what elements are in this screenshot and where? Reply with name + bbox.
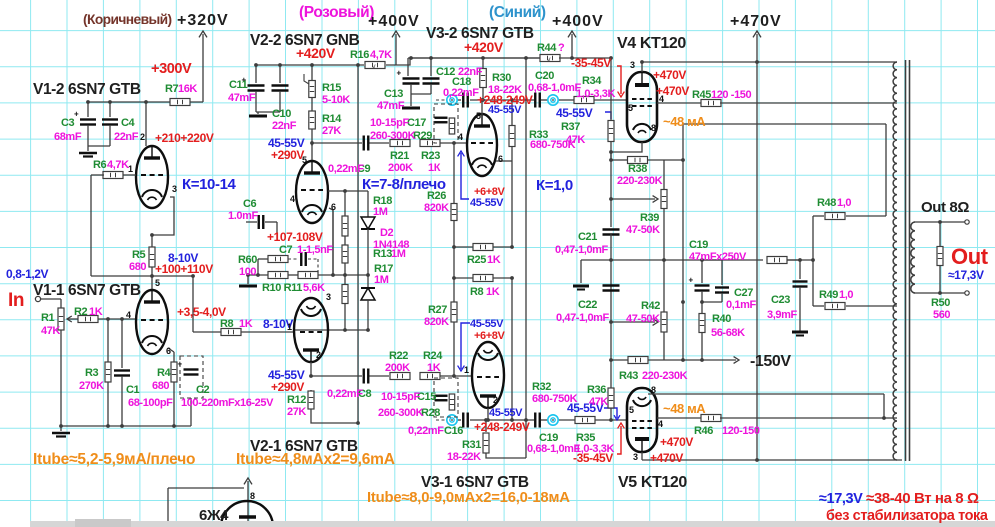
- svg-text:C6: C6: [243, 198, 257, 210]
- ground V1 rail: [52, 433, 70, 437]
- network C15/R28 dashed box: [434, 378, 458, 417]
- svg-text:R21: R21: [390, 150, 409, 162]
- svg-text:+6+8V: +6+8V: [474, 330, 505, 342]
- node +400V arrow (Rozovy): [392, 31, 400, 65]
- svg-text:3: 3: [172, 184, 177, 194]
- svg-text:0,68-1,0mF: 0,68-1,0mF: [527, 443, 581, 455]
- svg-text:2: 2: [140, 132, 145, 142]
- svg-text:R7: R7: [165, 83, 179, 95]
- blue arrow upper 45-55V: [458, 151, 469, 199]
- svg-text:+400V: +400V: [552, 13, 604, 30]
- svg-text:5,6K: 5,6K: [303, 282, 325, 294]
- node -150V arrow: [702, 357, 739, 364]
- svg-text:R29: R29: [413, 130, 432, 142]
- svg-text:4: 4: [290, 194, 295, 204]
- wire V3-2 cathode: [496, 160, 512, 162]
- svg-text:R36: R36: [587, 384, 606, 396]
- blue elbow 45-55V upper: [605, 112, 611, 119]
- svg-text:10-15pF: 10-15pF: [381, 391, 420, 403]
- tube V5 KT120 (inverted): [627, 388, 657, 452]
- tube V2-1 (inverted): [294, 298, 328, 362]
- resistor R10: [268, 272, 288, 279]
- resistor R33: [509, 100, 515, 247]
- svg-text:+470V: +470V: [730, 13, 782, 30]
- capacitor C4: [102, 102, 118, 146]
- svg-text:C22: C22: [578, 299, 597, 311]
- capacitor C22: [603, 286, 620, 291]
- svg-text:10-15pF: 10-15pF: [370, 117, 409, 129]
- svg-text:C15: C15: [417, 391, 436, 403]
- wire y360 row: [611, 302, 702, 360]
- diode D1: [361, 288, 375, 330]
- resistor R46: [701, 415, 721, 422]
- svg-text:R8: R8: [470, 286, 484, 298]
- svg-text:R39: R39: [640, 212, 659, 224]
- wire R6 to grid: [91, 174, 136, 176]
- capacitor C7 dashed: [288, 252, 318, 275]
- capacitor C1: [114, 319, 130, 426]
- svg-text:0,22mF: 0,22mF: [408, 425, 444, 437]
- svg-text:6: 6: [498, 154, 503, 164]
- svg-text:C7: C7: [279, 244, 293, 256]
- svg-text:1M: 1M: [373, 206, 388, 218]
- svg-text:+420V: +420V: [464, 39, 504, 55]
- svg-text:6: 6: [166, 346, 171, 356]
- capacitor C2 (dashed box): [178, 356, 204, 398]
- svg-text:V1-1 6SN7 GTB: V1-1 6SN7 GTB: [33, 282, 141, 299]
- svg-text:8: 8: [250, 491, 255, 501]
- tube 6Zh4 (partial): [221, 501, 273, 527]
- resistor R4: [171, 362, 177, 426]
- ground under C13/C12: [402, 94, 431, 108]
- svg-text:68-100pF: 68-100pF: [128, 397, 173, 409]
- svg-text:45-55V: 45-55V: [470, 318, 504, 330]
- svg-text:47K: 47K: [41, 325, 60, 337]
- svg-text:200K: 200K: [388, 162, 413, 174]
- svg-text:-150V: -150V: [750, 353, 791, 370]
- wire rail x358: [357, 65, 359, 423]
- svg-text:1.0mF: 1.0mF: [228, 210, 258, 222]
- svg-text:R30: R30: [492, 72, 511, 84]
- svg-text:C11: C11: [229, 79, 248, 91]
- svg-text:C20: C20: [535, 70, 554, 82]
- svg-text:5: 5: [155, 278, 160, 288]
- svg-text:200K: 200K: [385, 362, 410, 374]
- wire V2-1 anode bottom: [310, 362, 312, 376]
- svg-text:C16: C16: [444, 425, 463, 437]
- resistor R17 body: [342, 285, 348, 304]
- wire V2-2 grid row: [328, 190, 368, 192]
- resistor R43: [628, 357, 648, 364]
- capacitor C20: [535, 93, 540, 108]
- svg-text:5: 5: [629, 405, 634, 415]
- resistor R3: [105, 319, 111, 426]
- svg-text:V1-2 6SN7 GTB: V1-2 6SN7 GTB: [33, 81, 141, 98]
- svg-text:Itube≈8,0-9,0мАх2=16,0-18мА: Itube≈8,0-9,0мАх2=16,0-18мА: [367, 490, 570, 506]
- capacitor C6: [246, 215, 277, 240]
- wire 45-55V coupling row: [312, 142, 389, 144]
- wire V3-1 bottom: [487, 408, 489, 420]
- resistor R13 body: [342, 245, 348, 263]
- svg-text:0,22mF: 0,22mF: [443, 87, 479, 99]
- svg-text:~48 мА: ~48 мА: [663, 114, 706, 129]
- svg-text:0,22mF: 0,22mF: [328, 163, 364, 175]
- capacitor C8: [364, 369, 369, 384]
- svg-text:47mF: 47mF: [228, 92, 256, 104]
- svg-text:+470V: +470V: [653, 68, 686, 82]
- svg-text:6: 6: [331, 202, 336, 212]
- svg-text:27K: 27K: [322, 125, 341, 137]
- svg-text:+3,5-4,0V: +3,5-4,0V: [177, 305, 226, 319]
- wire secondary bottom lead: [914, 291, 969, 295]
- svg-text:260-300K: 260-300K: [370, 130, 416, 142]
- wire V1-2 anode rail: [88, 101, 203, 103]
- wire +107-108V row: [248, 274, 368, 276]
- resistor R40: [699, 302, 705, 360]
- svg-text:R4: R4: [157, 367, 172, 379]
- tube V3-2: [467, 114, 497, 176]
- wire +248-249V row: [436, 99, 627, 101]
- svg-text:R37: R37: [561, 121, 580, 133]
- svg-text:120 -150: 120 -150: [711, 89, 752, 101]
- svg-text:R44: R44: [537, 42, 557, 54]
- wire R45 to OPT tap: [720, 102, 897, 104]
- svg-text:R42: R42: [641, 300, 660, 312]
- resistor R18 body: [342, 216, 348, 236]
- blue arrow lower 45-55V: [458, 323, 470, 371]
- svg-text:+6+8V: +6+8V: [474, 186, 505, 198]
- wire feedback rail x91: [90, 175, 92, 276]
- resistor R60: [258, 256, 288, 276]
- svg-text:R1: R1: [41, 312, 55, 324]
- svg-text:5-10K: 5-10K: [322, 94, 350, 106]
- wire fb rail x813: [812, 216, 814, 306]
- svg-text:C17: C17: [407, 117, 426, 129]
- svg-text:0,1mF: 0,1mF: [726, 299, 756, 311]
- svg-text:~48 мА: ~48 мА: [663, 401, 706, 416]
- svg-text:47mF: 47mF: [377, 100, 405, 112]
- transformer primary coil: [893, 62, 897, 460]
- ground stub +107 row: [239, 275, 257, 286]
- capacitor C21: [603, 230, 620, 389]
- wire V1-2 cathode: [152, 197, 174, 247]
- svg-text:R15: R15: [322, 82, 341, 94]
- wire V2-1 grid row: [294, 329, 368, 331]
- wire R24 to V3-1 grid: [440, 375, 472, 377]
- wire V5 anode bottom: [642, 452, 902, 460]
- svg-text:120-150: 120-150: [722, 425, 760, 437]
- ground under C3/C4: [79, 153, 97, 157]
- svg-text:100-220mFx16-25V: 100-220mFx16-25V: [181, 397, 274, 409]
- svg-text:+: +: [74, 110, 79, 119]
- svg-text:+: +: [178, 360, 183, 369]
- svg-text:47-50K: 47-50K: [626, 313, 660, 325]
- svg-text:R38: R38: [628, 163, 647, 175]
- wire R8 leads: [193, 331, 294, 333]
- capacitor C9: [364, 136, 369, 151]
- svg-text:8-10V: 8-10V: [168, 251, 198, 265]
- svg-text:R10 R11: R10 R11: [262, 282, 302, 294]
- svg-text:Out 8Ω: Out 8Ω: [921, 199, 969, 216]
- svg-text:≈38-40 Вт на 8 Ω: ≈38-40 Вт на 8 Ω: [866, 490, 979, 507]
- svg-text:+400V: +400V: [368, 13, 420, 30]
- svg-text:47-50K: 47-50K: [626, 224, 660, 236]
- svg-text:R49: R49: [819, 289, 838, 301]
- svg-text:4: 4: [458, 132, 463, 142]
- svg-text:+300V: +300V: [151, 61, 192, 77]
- svg-text:-35-45V: -35-45V: [571, 56, 611, 70]
- svg-text:R26: R26: [427, 190, 446, 202]
- svg-text:≈17,3V: ≈17,3V: [948, 268, 984, 282]
- resistor R6: [103, 172, 123, 179]
- capacitor C10: [272, 65, 289, 112]
- svg-text:4: 4: [126, 310, 131, 320]
- svg-text:(Розовый): (Розовый): [299, 4, 374, 21]
- svg-text:Itube≈5,2-5,9мА/плечо: Itube≈5,2-5,9мА/плечо: [33, 451, 195, 468]
- svg-text:V4 KT120: V4 KT120: [617, 35, 686, 52]
- svg-text:4,7K: 4,7K: [370, 49, 392, 61]
- wire cathode ground rail: [61, 398, 191, 431]
- svg-text:4,7K: 4,7K: [107, 159, 129, 171]
- svg-text:3: 3: [326, 292, 331, 302]
- capacitor C19 coupling: [535, 413, 540, 428]
- svg-text:1: 1: [128, 164, 133, 174]
- resistor R35: [575, 417, 595, 424]
- svg-text:0,47-1,0mF: 0,47-1,0mF: [555, 244, 609, 256]
- wire 6Zh4 left leg: [168, 488, 244, 527]
- svg-text:27K: 27K: [287, 406, 306, 418]
- tube V1-1: [136, 290, 168, 354]
- svg-text:100: 100: [239, 266, 256, 278]
- wire R5 bottom: [151, 267, 153, 276]
- tube V3-1 (inverted): [472, 342, 504, 408]
- tube V1-2: [136, 146, 168, 208]
- potentiometer arrow R42: [611, 319, 658, 326]
- svg-text:680: 680: [129, 261, 146, 273]
- svg-text:R13: R13: [373, 248, 392, 260]
- svg-text:R6: R6: [93, 159, 107, 171]
- svg-text:v: v: [547, 57, 551, 64]
- marker node upper right: [548, 95, 558, 105]
- resistor R38: [628, 157, 648, 164]
- wire V4 screen R45 row: [657, 102, 702, 104]
- svg-text:C3: C3: [61, 117, 75, 129]
- svg-text:+290V: +290V: [271, 148, 304, 162]
- svg-text:R25: R25: [467, 254, 486, 266]
- svg-text:1,0-3,3K: 1,0-3,3K: [575, 443, 614, 455]
- wire +420V rail: [256, 64, 364, 66]
- svg-text:1,0: 1,0: [839, 289, 853, 301]
- svg-text:R34: R34: [582, 75, 602, 87]
- svg-text:260-300K: 260-300K: [378, 407, 424, 419]
- wire UL tap x683: [683, 124, 886, 302]
- svg-text:2: 2: [493, 395, 498, 405]
- resistor R11: [298, 272, 318, 279]
- svg-text:220-230K: 220-230K: [617, 175, 663, 187]
- svg-text:без стабилизатора тока: без стабилизатора тока: [826, 508, 989, 524]
- svg-text:8: 8: [651, 123, 656, 133]
- wire chain mid1: [344, 236, 346, 245]
- svg-text:R32: R32: [532, 381, 551, 393]
- svg-text:C23: C23: [771, 294, 790, 306]
- resistor chain R18/R13/R17 top lead: [344, 191, 346, 216]
- svg-text:R28: R28: [421, 407, 440, 419]
- svg-text:+248-249V: +248-249V: [474, 420, 530, 434]
- resistor R45: [701, 100, 721, 107]
- svg-text:56-68K: 56-68K: [711, 327, 745, 339]
- svg-text:0,8-1,2V: 0,8-1,2V: [6, 267, 49, 281]
- svg-text:C21: C21: [578, 231, 597, 243]
- svg-text:v: v: [372, 64, 376, 71]
- resistor R34: [574, 97, 594, 104]
- svg-text:R46: R46: [694, 425, 713, 437]
- svg-text:+470V: +470V: [660, 435, 693, 449]
- svg-text:1,0: 1,0: [837, 197, 851, 209]
- svg-text:+210+220V: +210+220V: [155, 131, 214, 145]
- svg-text:1K: 1K: [427, 362, 441, 374]
- svg-text:R8: R8: [220, 318, 234, 330]
- svg-text:47K: 47K: [589, 396, 608, 408]
- wire V5 screen R46 row: [657, 417, 702, 419]
- capacitor C13: [397, 69, 420, 95]
- svg-text:1K: 1K: [239, 318, 253, 330]
- resistor R24: [420, 373, 440, 380]
- wire V4 cathode: [611, 142, 642, 152]
- node +100+110V rail: [91, 275, 193, 277]
- svg-text:680-750K: 680-750K: [532, 393, 578, 405]
- svg-text:+: +: [397, 69, 402, 78]
- capacitor C12: [423, 58, 440, 94]
- svg-text:C4: C4: [121, 117, 136, 129]
- svg-text:R27: R27: [428, 304, 447, 316]
- svg-text:18-22K: 18-22K: [447, 451, 481, 463]
- svg-text:0,47-1,0mF: 0,47-1,0mF: [556, 312, 610, 324]
- resistor R8 second: [454, 275, 512, 421]
- svg-text:1M: 1M: [374, 274, 389, 286]
- transformer core: [906, 60, 910, 461]
- resistor R22: [390, 373, 410, 380]
- svg-text:≈17,3V: ≈17,3V: [819, 491, 863, 507]
- wire V1-2 anode: [145, 102, 147, 146]
- svg-text:+470V: +470V: [650, 451, 683, 465]
- svg-text:(Коричневый): (Коричневый): [83, 12, 172, 27]
- ground under C23: [792, 332, 808, 336]
- wire R38 row: [611, 152, 683, 160]
- svg-text:(Синий): (Синий): [489, 4, 546, 21]
- capacitor C11: [242, 65, 265, 112]
- svg-text:8: 8: [651, 385, 656, 395]
- potentiometer R1: [58, 308, 79, 330]
- diode D2: [361, 191, 375, 288]
- svg-text:?: ?: [558, 42, 565, 54]
- svg-text:C10: C10: [272, 108, 291, 120]
- svg-text:680: 680: [152, 380, 169, 392]
- resistor R48: [813, 213, 886, 220]
- wire +420V rail y58: [408, 58, 541, 76]
- resistor R49: [813, 303, 897, 310]
- svg-text:R16: R16: [350, 49, 369, 61]
- svg-text:R23: R23: [421, 150, 440, 162]
- svg-text:47K: 47K: [566, 134, 585, 146]
- svg-text:3: 3: [633, 452, 638, 462]
- svg-text:Out: Out: [951, 244, 989, 269]
- resistor R15 trimmer: [304, 65, 315, 98]
- svg-text:R45: R45: [692, 89, 711, 101]
- wire y260 row: [581, 259, 813, 261]
- ground stub x581: [573, 260, 589, 290]
- svg-text:1K: 1K: [89, 306, 103, 318]
- svg-text:1M: 1M: [391, 248, 406, 260]
- svg-text:1K: 1K: [486, 286, 500, 298]
- svg-text:4: 4: [659, 94, 664, 104]
- svg-text:R48: R48: [817, 197, 836, 209]
- marker node lower right: [548, 415, 558, 425]
- resistor R42: [661, 260, 667, 360]
- svg-text:К=1,0: К=1,0: [536, 177, 573, 194]
- svg-text:R50: R50: [931, 297, 950, 309]
- resistor R14: [309, 97, 316, 146]
- wire V2-2 cathode: [329, 208, 333, 275]
- capacitor C27: [702, 260, 729, 302]
- resistor R25: [454, 244, 512, 251]
- svg-text:45-55V: 45-55V: [489, 407, 523, 419]
- svg-text:+107-108V: +107-108V: [267, 230, 323, 244]
- svg-text:1: 1: [464, 365, 469, 375]
- wire V1-1 cathode: [168, 348, 174, 362]
- wire V3-2 anode: [481, 100, 483, 115]
- capacitor C18: [463, 93, 468, 108]
- resistor R50: [937, 222, 943, 293]
- svg-text:1: 1: [287, 322, 292, 332]
- resistor R8: [221, 329, 241, 336]
- wire grid V1-1: [98, 318, 136, 320]
- resistor R27: [451, 302, 457, 376]
- wire link V2-2 pin6 to V2-1 pin3: [332, 210, 334, 275]
- resistor R12: [308, 390, 358, 423]
- svg-text:К=10-14: К=10-14: [182, 176, 237, 193]
- svg-text:C27: C27: [734, 287, 753, 299]
- svg-text:R60: R60: [238, 254, 257, 266]
- svg-text:0,22mF: 0,22mF: [327, 388, 363, 400]
- svg-text:R40: R40: [712, 313, 731, 325]
- tube V4 KT120: [627, 72, 657, 142]
- bottom window band: [30, 521, 995, 527]
- resistor R21: [390, 140, 410, 147]
- svg-text:R5: R5: [132, 249, 146, 261]
- potentiometer arrow R39: [611, 196, 658, 203]
- svg-text:R24: R24: [423, 350, 443, 362]
- wire chain mid2: [344, 263, 346, 285]
- capacitor C19 HV: [689, 260, 710, 302]
- resistor R7: [170, 99, 190, 106]
- svg-text:47mFx250V: 47mFx250V: [689, 251, 747, 263]
- svg-text:1-1,5nF: 1-1,5nF: [297, 244, 333, 256]
- svg-text:45-55V: 45-55V: [470, 197, 504, 209]
- svg-text:R31: R31: [462, 439, 481, 451]
- svg-text:R12: R12: [287, 394, 306, 406]
- svg-text:45-55V: 45-55V: [488, 104, 522, 116]
- svg-text:C13: C13: [384, 88, 403, 100]
- node +320V supply arrow: [199, 31, 207, 102]
- svg-text:R2: R2: [74, 306, 88, 318]
- resistor R31: [483, 420, 526, 458]
- svg-text:560: 560: [933, 309, 950, 321]
- svg-text:820K: 820K: [424, 316, 449, 328]
- wire +248 bottom row: [436, 419, 627, 421]
- resistor R5: [149, 247, 155, 267]
- svg-text:5: 5: [476, 111, 481, 121]
- wire R16 right: [386, 58, 541, 65]
